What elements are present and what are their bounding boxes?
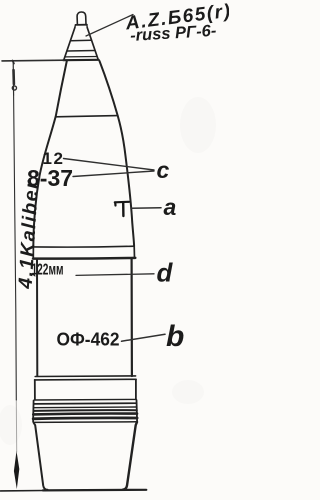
svg-text:b: b bbox=[166, 320, 184, 353]
svg-text:d: d bbox=[157, 258, 174, 288]
svg-text:ОФ-462: ОФ-462 bbox=[57, 330, 120, 350]
svg-text:c: c bbox=[157, 157, 170, 183]
svg-text:a: a bbox=[164, 194, 177, 220]
